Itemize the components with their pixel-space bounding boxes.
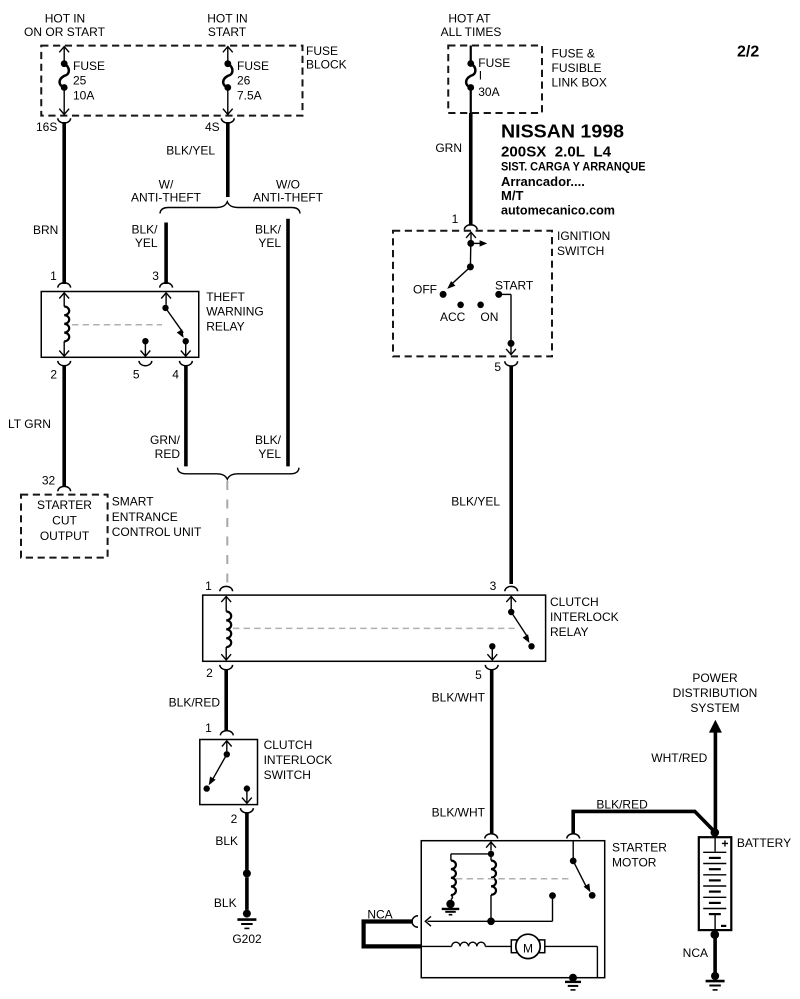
svg-text:1: 1	[205, 579, 212, 593]
node POWER DISTRIBUTION SYSTEM	[673, 671, 758, 715]
label pin 5 theft relay	[133, 368, 140, 382]
svg-text:automecanico.com: automecanico.com	[501, 204, 615, 218]
svg-text:OFF: OFF	[413, 282, 437, 296]
connector clutch relay pin 5	[485, 665, 498, 670]
svg-text:M: M	[523, 941, 533, 955]
svg-text:4: 4	[172, 368, 179, 382]
page label 2/2	[737, 44, 759, 61]
wire from battery negative to ground	[713, 930, 717, 972]
starter hold-in coil	[491, 854, 496, 921]
label W/O ANTI-THEFT	[253, 177, 324, 204]
label pin 5 ignition switch	[494, 360, 501, 374]
theft relay switch	[161, 293, 190, 356]
label BLK/YEL ignition output	[451, 494, 500, 508]
connector theft relay pin 4	[180, 361, 193, 366]
svg-text:FUSE: FUSE	[73, 59, 105, 73]
label BLK/WHT upper	[432, 691, 486, 705]
ignition start output wire to pin 5	[499, 294, 516, 354]
svg-text:INTERLOCK: INTERLOCK	[264, 753, 333, 767]
starter cut output dashed box	[21, 495, 108, 558]
svg-text:25: 25	[73, 73, 87, 87]
label pin 5 clutch relay	[475, 668, 482, 682]
svg-text:4S: 4S	[205, 120, 220, 134]
label pin 2 theft relay	[50, 368, 57, 382]
battery positive sign	[722, 840, 728, 846]
junction at battery positive	[711, 828, 720, 837]
label LT GRN	[8, 417, 51, 431]
svg-text:BLK/YEL: BLK/YEL	[166, 143, 215, 157]
starter motor box	[421, 841, 604, 978]
title M/T	[501, 188, 523, 203]
connector theft relay pin 5	[139, 361, 152, 366]
wire BLK/YEL W/O branch down to lower brace	[286, 219, 290, 467]
theft warning relay label	[206, 290, 264, 334]
svg-text:200SX 2.0L L4: 200SX 2.0L L4	[501, 143, 612, 160]
svg-text:GRN/: GRN/	[150, 433, 181, 447]
wire WHT/RED from battery positive to power distribution	[714, 732, 718, 837]
svg-text:ANTI-THEFT: ANTI-THEFT	[253, 190, 324, 204]
label BLK/RED	[169, 695, 221, 709]
splice junction on BLK wire	[243, 869, 251, 877]
clutch interlock relay box	[203, 595, 546, 661]
svg-text:M/T: M/T	[501, 188, 523, 203]
starter solenoid switch	[570, 841, 596, 899]
svg-text:3: 3	[490, 579, 497, 593]
svg-text:BLK/: BLK/	[255, 222, 282, 236]
ignition contact ACC	[440, 302, 466, 325]
fuse and fusible link box dashed box	[448, 46, 542, 114]
label 4S	[205, 120, 220, 134]
label BRN	[33, 223, 58, 237]
title 200SX 2.0L L4	[501, 143, 612, 160]
svg-text:MOTOR: MOTOR	[612, 856, 657, 870]
wire BLK/RED from starter motor B terminal to battery positive	[573, 811, 715, 834]
wire BLK lower segment	[245, 877, 249, 910]
connector clutch relay pin 3	[505, 586, 518, 591]
wire motor to case ground	[545, 946, 598, 977]
svg-text:CUT: CUT	[52, 513, 77, 527]
wire 4S BLK/YEL from fuse 26 to brace	[226, 122, 230, 197]
brace splitting 4S wire into W/ and W/O branches	[160, 202, 300, 214]
svg-text:BLK/WHT: BLK/WHT	[432, 691, 486, 705]
junction hold-in coil to NCA wire	[487, 918, 495, 926]
svg-text:ON OR START: ON OR START	[24, 25, 106, 39]
svg-text:16S: 16S	[36, 120, 57, 134]
wire to field winding	[421, 945, 451, 947]
svg-text:GRN: GRN	[435, 141, 462, 155]
svg-text:LT GRN: LT GRN	[8, 417, 51, 431]
label BLK lower	[214, 896, 237, 910]
battery ground	[706, 972, 725, 990]
svg-text:ENTRANCE: ENTRANCE	[112, 510, 178, 524]
wire BLK/YEL W/ branch to theft relay pin 3	[164, 223, 168, 285]
svg-text:BLK: BLK	[214, 896, 237, 910]
ignition contact OFF	[413, 282, 447, 298]
starter field winding inductor	[452, 942, 486, 946]
clutch interlock relay label	[550, 595, 619, 639]
label pin 1 theft relay	[50, 269, 57, 283]
svg-text:CONTROL UNIT: CONTROL UNIT	[112, 525, 202, 539]
label pin 4 theft relay	[172, 368, 179, 382]
connector pin 4S below fuse block	[221, 118, 234, 123]
wire BLK/RED from clutch relay pin 2 to clutch switch pin 1	[224, 669, 228, 731]
svg-text:I: I	[479, 68, 482, 82]
connector starter motor S terminal	[485, 834, 498, 839]
svg-text:BLK/: BLK/	[255, 433, 282, 447]
label pin 3 theft relay	[152, 269, 159, 283]
svg-text:BLK: BLK	[215, 834, 238, 848]
svg-text:START: START	[495, 278, 534, 292]
svg-text:SWITCH: SWITCH	[557, 244, 604, 258]
starter pull-in coil	[451, 861, 456, 896]
label G202	[232, 932, 262, 946]
title SIST. CARGA Y ARRANQUE	[501, 161, 646, 173]
svg-text:BLK/YEL: BLK/YEL	[451, 494, 500, 508]
svg-text:POWER: POWER	[692, 671, 738, 685]
svg-text:START: START	[208, 25, 247, 39]
svg-text:W/O: W/O	[276, 177, 300, 191]
svg-text:BLOCK: BLOCK	[306, 58, 347, 72]
svg-text:ALL TIMES: ALL TIMES	[441, 25, 502, 39]
svg-text:IGNITION: IGNITION	[557, 229, 610, 243]
svg-text:BLK/: BLK/	[131, 222, 158, 236]
starter link dashed line	[456, 878, 570, 880]
ground G202	[237, 910, 256, 929]
internal wire to NCA connector	[425, 916, 552, 926]
svg-text:5: 5	[494, 360, 501, 374]
label BLK/ YEL right	[255, 222, 282, 250]
wire BLK/YEL from ignition to clutch relay pin 3	[509, 365, 513, 584]
svg-text:BLK/RED: BLK/RED	[169, 695, 221, 709]
svg-text:SWITCH: SWITCH	[264, 768, 311, 782]
svg-text:NISSAN 1998: NISSAN 1998	[501, 122, 624, 142]
label BLK/ YEL above lower brace	[255, 433, 282, 461]
svg-text:HOT IN: HOT IN	[207, 12, 247, 26]
connector theft relay pin 2	[58, 361, 71, 366]
fusible link I 30A	[466, 46, 510, 114]
svg-text:DISTRIBUTION: DISTRIBUTION	[673, 686, 758, 700]
svg-text:RELAY: RELAY	[206, 320, 244, 334]
clutch switch contacts	[204, 741, 232, 792]
svg-text:YEL: YEL	[258, 447, 281, 461]
theft relay coil	[59, 293, 69, 356]
ignition contact ON	[477, 302, 498, 325]
title automecanico.com	[501, 204, 615, 218]
connector ignition switch pin 1	[464, 225, 477, 230]
svg-text:WHT/RED: WHT/RED	[651, 751, 707, 765]
svg-text:INTERLOCK: INTERLOCK	[550, 610, 619, 624]
connector starter motor B terminal	[567, 834, 580, 839]
svg-text:5: 5	[133, 368, 140, 382]
wire 16S BRN from fuse 25 to theft relay pin 1	[62, 122, 66, 284]
svg-text:OUTPUT: OUTPUT	[40, 529, 90, 543]
starter cut output label	[37, 498, 92, 543]
svg-text:30A: 30A	[478, 85, 499, 99]
starter switch contact to motor feed	[549, 892, 556, 921]
svg-text:HOT IN: HOT IN	[45, 12, 85, 26]
clutch interlock switch box	[200, 740, 258, 805]
svg-text:FUSE: FUSE	[306, 44, 338, 58]
fuse block dashed box	[41, 46, 302, 116]
label 16S	[36, 120, 57, 134]
svg-text:1: 1	[452, 212, 459, 226]
svg-text:2/2: 2/2	[737, 44, 759, 61]
svg-text:BLK/RED: BLK/RED	[596, 797, 648, 811]
label GRN	[435, 141, 462, 155]
wire LT GRN from theft relay pin 2 to control unit pin 32	[62, 365, 66, 487]
svg-text:HOT AT: HOT AT	[448, 12, 491, 26]
connector clutch relay pin 2	[220, 665, 233, 670]
svg-text:BRN: BRN	[33, 223, 58, 237]
svg-text:FUSE: FUSE	[478, 56, 510, 70]
svg-text:SIST. CARGA Y ARRANQUE: SIST. CARGA Y ARRANQUE	[501, 161, 646, 173]
svg-text:STARTER: STARTER	[37, 498, 92, 512]
svg-text:FUSE: FUSE	[237, 59, 269, 73]
smart entrance control unit label	[112, 495, 202, 540]
svg-text:RED: RED	[155, 447, 181, 461]
battery plates	[703, 837, 726, 930]
label GRN/ RED	[150, 433, 181, 461]
label BLK upper	[215, 834, 238, 848]
svg-text:2: 2	[231, 812, 238, 826]
connector NCA at starter left edge	[412, 916, 418, 928]
connector clutch relay pin 1	[220, 586, 233, 591]
label BLK/WHT lower	[432, 806, 486, 820]
svg-text:ANTI-THEFT: ANTI-THEFT	[131, 190, 202, 204]
title NISSAN 1998	[501, 122, 624, 142]
svg-text:FUSIBLE: FUSIBLE	[552, 61, 602, 75]
node HOT IN START	[207, 12, 247, 39]
svg-text:SYSTEM: SYSTEM	[690, 701, 739, 715]
clutch relay switch	[506, 596, 534, 649]
svg-text:CLUTCH: CLUTCH	[550, 595, 599, 609]
svg-text:2: 2	[206, 666, 213, 680]
svg-text:BATTERY: BATTERY	[737, 836, 791, 850]
svg-text:26: 26	[237, 73, 251, 87]
svg-text:3: 3	[152, 269, 159, 283]
wire to pull-in coil	[451, 854, 491, 861]
label pin 1 clutch switch	[205, 721, 212, 735]
ignition contact START	[495, 278, 534, 298]
connector clutch switch pin 1	[220, 731, 233, 736]
svg-text:NCA: NCA	[367, 908, 392, 922]
svg-text:NCA: NCA	[683, 946, 708, 960]
connector control unit pin 32	[58, 486, 71, 491]
starter coil ground	[442, 895, 460, 915]
svg-text:FUSE &: FUSE &	[552, 47, 595, 61]
label STARTER MOTOR	[612, 841, 667, 870]
label WHT/RED	[651, 751, 707, 765]
ignition switch dashed box	[393, 231, 552, 357]
svg-text:WARNING: WARNING	[206, 305, 264, 319]
battery negative sign	[721, 925, 726, 927]
svg-text:SMART: SMART	[112, 495, 154, 509]
label BLK/RED battery	[596, 797, 648, 811]
fuse and fusible link box label	[552, 47, 607, 90]
wire BLK upper segment	[245, 812, 249, 869]
label BLK/ YEL left	[131, 222, 158, 250]
svg-text:10A: 10A	[73, 88, 94, 102]
svg-text:Arrancador....: Arrancador....	[501, 174, 585, 189]
svg-text:ACC: ACC	[440, 310, 466, 324]
svg-text:1: 1	[50, 269, 57, 283]
label W/ ANTI-THEFT	[131, 177, 202, 204]
label pin 32	[42, 473, 56, 487]
svg-text:G202: G202	[232, 932, 262, 946]
svg-text:YEL: YEL	[258, 236, 281, 250]
svg-text:5: 5	[475, 668, 482, 682]
ignition switch label	[557, 229, 610, 258]
svg-text:ON: ON	[480, 310, 498, 324]
connector theft relay pin 1	[58, 283, 71, 288]
clutch relay link dashed line	[233, 627, 515, 629]
connector pin 16S below fuse block	[58, 118, 71, 123]
svg-text:YEL: YEL	[135, 236, 158, 250]
wire inductor to motor	[485, 945, 511, 947]
svg-text:32: 32	[42, 473, 56, 487]
theft relay pin 5 stub	[141, 338, 151, 356]
label pin 3 clutch relay	[490, 579, 497, 593]
clutch interlock switch label	[264, 738, 333, 782]
ignition switch rotor	[447, 232, 487, 289]
title Arrancador....	[501, 174, 585, 189]
label NCA starter	[367, 908, 392, 922]
clutch relay coil	[221, 596, 231, 660]
connector theft relay pin 3	[160, 283, 173, 288]
wire NCA loop	[364, 922, 422, 947]
wire GRN from fusible link to ignition switch	[469, 113, 473, 226]
motor M1	[511, 934, 545, 958]
svg-text:7.5A: 7.5A	[237, 88, 262, 102]
svg-text:THEFT: THEFT	[206, 290, 245, 304]
dashed wire from brace to clutch interlock relay pin 1	[226, 481, 228, 585]
svg-text:W/: W/	[159, 177, 174, 191]
label pin 2 clutch switch	[231, 812, 238, 826]
fuse 25 10A	[59, 47, 105, 115]
node HOT IN ON OR START	[24, 12, 106, 39]
clutch relay pin 5 contact	[487, 643, 497, 660]
starter case ground symbol	[565, 982, 581, 990]
connector ignition switch pin 5	[505, 361, 518, 366]
theft relay link dashed line	[72, 324, 162, 326]
fuse block label	[306, 44, 347, 72]
label NCA battery	[683, 946, 708, 960]
connector clutch switch pin 2	[241, 808, 254, 813]
brace merging GRN/RED and BLK/YEL wires	[178, 468, 300, 480]
starter solenoid input	[486, 842, 496, 857]
label pin 1 ignition switch	[452, 212, 459, 226]
battery label	[737, 836, 791, 850]
arrow to power distribution system	[709, 720, 722, 733]
junction starter case ground	[569, 974, 577, 982]
svg-text:RELAY: RELAY	[550, 625, 588, 639]
svg-text:CLUTCH: CLUTCH	[264, 738, 313, 752]
wire BLK/WHT from clutch relay pin 5 to starter motor	[490, 669, 494, 834]
svg-text:2: 2	[50, 368, 57, 382]
svg-text:1: 1	[205, 721, 212, 735]
label pin 1 clutch relay	[205, 579, 212, 593]
svg-text:LINK BOX: LINK BOX	[552, 75, 607, 89]
junction at battery negative	[711, 930, 720, 939]
node HOT AT ALL TIMES	[441, 12, 502, 39]
svg-text:BLK/WHT: BLK/WHT	[432, 806, 486, 820]
battery box	[699, 837, 732, 930]
theft warning relay box	[41, 292, 199, 358]
clutch switch pin 2 contact	[242, 785, 252, 803]
svg-text:STARTER: STARTER	[612, 841, 667, 855]
fuse 26 7.5A	[223, 47, 269, 115]
label pin 2 clutch relay	[206, 666, 213, 680]
label BLK/YEL 4S	[166, 143, 215, 157]
wire GRN/RED from theft relay pin 4 to lower brace	[184, 365, 188, 466]
